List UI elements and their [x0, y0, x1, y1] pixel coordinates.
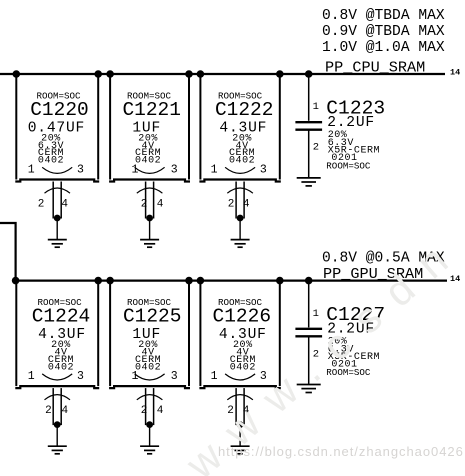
top plate of C1227 [295, 328, 322, 330]
wire C1225 to ground [149, 425, 151, 447]
upper plate arc of C1222 [225, 167, 255, 173]
svg-text:3: 3 [260, 164, 267, 177]
svg-text:2: 2 [228, 199, 235, 211]
svg-text:0402: 0402 [230, 362, 256, 373]
svg-text:0.9V @TBDA MAX: 0.9V @TBDA MAX [322, 24, 445, 40]
junction dot below C1226 [237, 421, 244, 428]
svg-text:1: 1 [313, 308, 319, 320]
svg-text:4: 4 [61, 405, 68, 417]
wire C1226 to ground [239, 425, 241, 447]
junction dot top wire 4 [185, 70, 193, 78]
junction dot below C1225 [146, 421, 153, 428]
ground symbol below C1224 [48, 446, 67, 454]
pin 2 lead of C1226 [235, 388, 237, 425]
lower plate arc of C1221 [137, 188, 163, 193]
svg-text:14: 14 [450, 67, 460, 77]
top plate of C1223 [295, 121, 322, 123]
junction dot below C1220 [54, 215, 61, 222]
wire net PP_CPU_SRAM [0, 73, 445, 75]
svg-text:4: 4 [157, 405, 164, 417]
svg-text:ROOM=SOC: ROOM=SOC [326, 160, 371, 171]
ground symbol below C1226 [231, 446, 250, 454]
capacitor C1225 [109, 281, 190, 389]
lower plate arc of C1224 [45, 395, 71, 400]
junction dot below C1221 [146, 215, 153, 222]
wire tap to C1223 [308, 74, 310, 121]
ground symbol below C1225 [140, 446, 159, 454]
svg-text:0402: 0402 [135, 362, 161, 373]
lower plate arc of C1226 [227, 395, 253, 400]
pin 4 lead of C1225 [153, 388, 155, 425]
svg-text:C1225: C1225 [123, 305, 182, 327]
wire C1220 to ground [56, 218, 58, 240]
ground symbol below C1221 [140, 240, 159, 248]
capacitor C1220 [15, 74, 99, 182]
svg-text:C1220: C1220 [30, 99, 89, 121]
junction dot bottom wire 1 [12, 277, 20, 285]
svg-text:3: 3 [171, 164, 178, 177]
svg-text:3: 3 [171, 370, 178, 383]
svg-text:4: 4 [61, 199, 68, 211]
svg-text:2: 2 [313, 142, 319, 154]
svg-text:4: 4 [243, 199, 250, 211]
svg-text:1: 1 [211, 164, 218, 177]
svg-text:1: 1 [211, 370, 218, 383]
ground symbol below C1227 [297, 385, 321, 393]
svg-text:0402: 0402 [38, 156, 64, 167]
wire C1222 to ground [239, 218, 241, 240]
bottom plate of C1223 [295, 129, 322, 131]
ground symbol below C1223 [297, 178, 321, 186]
svg-text:2: 2 [45, 405, 52, 417]
upper plate arc of C1221 [135, 167, 165, 173]
wire C1223 to ground [308, 130, 310, 178]
pin 4 lead of C1222 [243, 182, 245, 219]
upper plate arc of C1220 [42, 167, 72, 173]
svg-text:4: 4 [157, 199, 164, 211]
svg-text:0402: 0402 [229, 156, 255, 167]
wire net PP_GPU_SRAM [16, 280, 447, 282]
pin 4 lead of C1226 [243, 388, 245, 425]
svg-text:1.0V @1.0A MAX: 1.0V @1.0A MAX [322, 40, 445, 56]
upper plate arc of C1226 [225, 374, 255, 380]
svg-text:1: 1 [313, 101, 319, 113]
svg-text:1: 1 [28, 164, 35, 177]
svg-text:https://blog.csdn.net/zhangcha: https://blog.csdn.net/zhangchao0426 [218, 444, 464, 459]
wire C1224 to ground [56, 425, 58, 447]
junction dot top wire 2 [94, 70, 102, 78]
wire C1221 to ground [149, 218, 151, 240]
svg-text:2: 2 [141, 405, 148, 417]
svg-text:C1226: C1226 [213, 305, 272, 327]
svg-text:0402: 0402 [48, 362, 74, 373]
capacitor C1226 [199, 281, 280, 389]
ground symbol below C1222 [231, 240, 250, 248]
pin 2 lead of C1225 [145, 388, 147, 425]
junction dot below C1224 [54, 421, 61, 428]
svg-text:0.8V @TBDA MAX: 0.8V @TBDA MAX [322, 8, 445, 24]
junction dot top wire 7 [305, 70, 313, 78]
pin 4 lead of C1221 [153, 182, 155, 219]
pin 4 lead of C1224 [60, 388, 62, 425]
junction dot top wire 5 [197, 70, 205, 78]
junction dot bottom wire 2 [94, 277, 102, 285]
bottom plate of C1227 [295, 335, 322, 337]
junction dot below C1222 [237, 215, 244, 222]
lower plate arc of C1225 [137, 395, 163, 400]
lower plate arc of C1220 [45, 188, 71, 193]
junction dot bottom wire 7 [305, 277, 313, 285]
capacitor C1222 [199, 74, 280, 182]
pin 2 lead of C1221 [145, 182, 147, 219]
upper plate arc of C1224 [42, 374, 72, 380]
junction dot bottom wire 3 [106, 277, 114, 285]
svg-text:C1222: C1222 [215, 99, 274, 121]
junction dot bottom wire 5 [197, 277, 205, 285]
capacitor C1224 [15, 281, 99, 389]
svg-text:C1224: C1224 [32, 305, 91, 327]
capacitor C1221 [109, 74, 190, 182]
pin 4 lead of C1220 [60, 182, 62, 219]
svg-text:2: 2 [141, 199, 148, 211]
svg-text:2: 2 [38, 199, 45, 211]
junction dot bottom wire 6 [276, 277, 284, 285]
junction dot top wire 6 [276, 70, 284, 78]
lower plate arc of C1222 [227, 188, 253, 193]
svg-text:3: 3 [77, 164, 84, 177]
junction dot bottom wire 4 [185, 277, 193, 285]
pin 2 lead of C1220 [52, 182, 54, 219]
junction dot top wire 3 [106, 70, 114, 78]
wire C1227 to ground [308, 336, 310, 384]
svg-text:1: 1 [28, 370, 35, 383]
wire from left edge to PP_GPU_SRAM net [0, 223, 16, 281]
ground symbol below C1220 [48, 240, 67, 248]
pin 2 lead of C1222 [235, 182, 237, 219]
svg-text:C1221: C1221 [122, 99, 181, 121]
upper plate arc of C1225 [135, 374, 165, 380]
svg-text:0402: 0402 [135, 156, 161, 167]
junction dot top wire 1 [12, 70, 20, 78]
pin 2 lead of C1224 [52, 388, 54, 425]
svg-text:2.2UF: 2.2UF [327, 115, 375, 131]
svg-text:3: 3 [77, 370, 84, 383]
wire tap to C1227 [308, 281, 310, 328]
